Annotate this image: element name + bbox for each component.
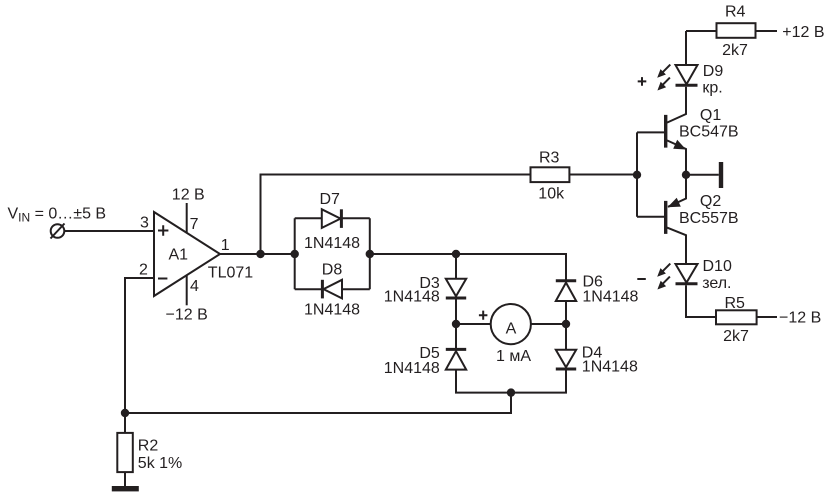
svg-text:10k: 10k: [538, 186, 565, 203]
svg-text:R2: R2: [138, 438, 159, 455]
svg-text:+12 В: +12 В: [782, 24, 824, 41]
svg-text:A: A: [506, 321, 517, 338]
svg-text:1 мА: 1 мА: [496, 348, 531, 365]
svg-text:D10: D10: [703, 258, 732, 275]
svg-text:2: 2: [139, 262, 148, 279]
svg-text:D8: D8: [322, 262, 343, 279]
svg-text:1N4148: 1N4148: [304, 235, 360, 252]
svg-text:TL071: TL071: [208, 265, 253, 282]
svg-text:R5: R5: [725, 295, 746, 312]
svg-text:2k7: 2k7: [723, 328, 749, 345]
svg-text:1N4148: 1N4148: [304, 302, 360, 319]
svg-text:BC557B: BC557B: [679, 210, 739, 227]
svg-text:−12 В: −12 В: [166, 306, 208, 323]
svg-text:зел.: зел.: [702, 275, 731, 292]
svg-text:A1: A1: [169, 247, 189, 264]
svg-text:1N4148: 1N4148: [384, 289, 440, 306]
svg-text:BC547B: BC547B: [679, 124, 739, 141]
svg-text:D9: D9: [703, 63, 724, 80]
svg-text:4: 4: [190, 278, 199, 295]
svg-text:12 В: 12 В: [172, 187, 205, 204]
svg-text:Q1: Q1: [700, 107, 721, 124]
svg-text:−12 В: −12 В: [779, 310, 821, 327]
svg-text:1N4148: 1N4148: [384, 360, 440, 377]
svg-text:3: 3: [140, 215, 149, 232]
svg-text:1: 1: [221, 237, 230, 254]
svg-text:D7: D7: [320, 191, 341, 208]
svg-text:7: 7: [190, 216, 199, 233]
svg-text:Q2: Q2: [700, 193, 721, 210]
svg-text:5k 1%: 5k 1%: [138, 455, 182, 472]
svg-text:1N4148: 1N4148: [582, 289, 638, 306]
svg-text:2k7: 2k7: [722, 42, 748, 59]
svg-text:кр.: кр.: [702, 80, 722, 97]
svg-text:1N4148: 1N4148: [582, 359, 638, 376]
svg-text:R4: R4: [725, 4, 746, 21]
svg-text:R3: R3: [539, 150, 560, 167]
